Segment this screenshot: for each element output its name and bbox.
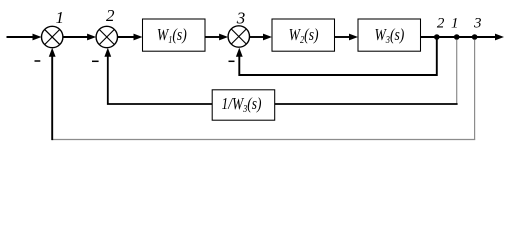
- svg-text:2: 2: [106, 6, 115, 25]
- block W2: [272, 19, 335, 51]
- wire: outer feedback bottom horizontal (grey): [52, 139, 475, 141]
- block 1/W3: [212, 90, 275, 120]
- svg-text:1: 1: [56, 8, 65, 27]
- svg-text:3: 3: [236, 9, 246, 28]
- wire: inner feedback (node 2 down and left to sum3): [239, 38, 436, 75]
- wire: middle feedback drop from node 1 (grey): [456, 40, 458, 104]
- block W3: [358, 19, 421, 51]
- wire: input arrow: [7, 34, 42, 41]
- wire: middle feedback horizontal left of 1/W3 block, up into sum2: [108, 56, 212, 104]
- svg-text:2: 2: [437, 16, 445, 32]
- minus sign at sum1: [35, 60, 41, 62]
- node 2 (tap dot): [434, 34, 440, 40]
- node 1 (tap dot): [454, 34, 460, 40]
- summing junction 1: [42, 26, 63, 47]
- wire: sum2 to W1: [118, 34, 143, 41]
- arrow into sum1 (up): [49, 48, 56, 57]
- wire: output: [421, 34, 505, 41]
- arrow into sum2 (up): [104, 48, 111, 57]
- wire: W2 to W3: [335, 34, 359, 41]
- svg-text:W1(s): W1(s): [157, 26, 187, 47]
- summing junction 2: [96, 26, 117, 47]
- wire: middle feedback horizontal right of 1/W3 block: [275, 103, 458, 105]
- svg-text:1/W3(s): 1/W3(s): [222, 95, 262, 116]
- wire: outer feedback drop from node 3 (grey): [474, 40, 476, 140]
- arrow into sum3 (up): [236, 48, 243, 57]
- svg-text:W2(s): W2(s): [289, 26, 319, 47]
- minus sign at sum3: [229, 60, 235, 62]
- wire: W1 to sum3: [205, 34, 228, 41]
- wire: outer feedback left vertical up into sum1: [51, 56, 53, 140]
- svg-text:W3(s): W3(s): [374, 26, 404, 47]
- svg-text:3: 3: [473, 16, 482, 32]
- minus sign at sum2: [92, 60, 99, 62]
- wire: sum3 to W2: [250, 34, 273, 41]
- wire: sum1 to sum2: [63, 34, 96, 41]
- block W1: [143, 19, 206, 51]
- summing junction 3: [228, 26, 249, 47]
- svg-text:1: 1: [451, 16, 459, 32]
- node 3 (tap dot): [472, 34, 478, 40]
